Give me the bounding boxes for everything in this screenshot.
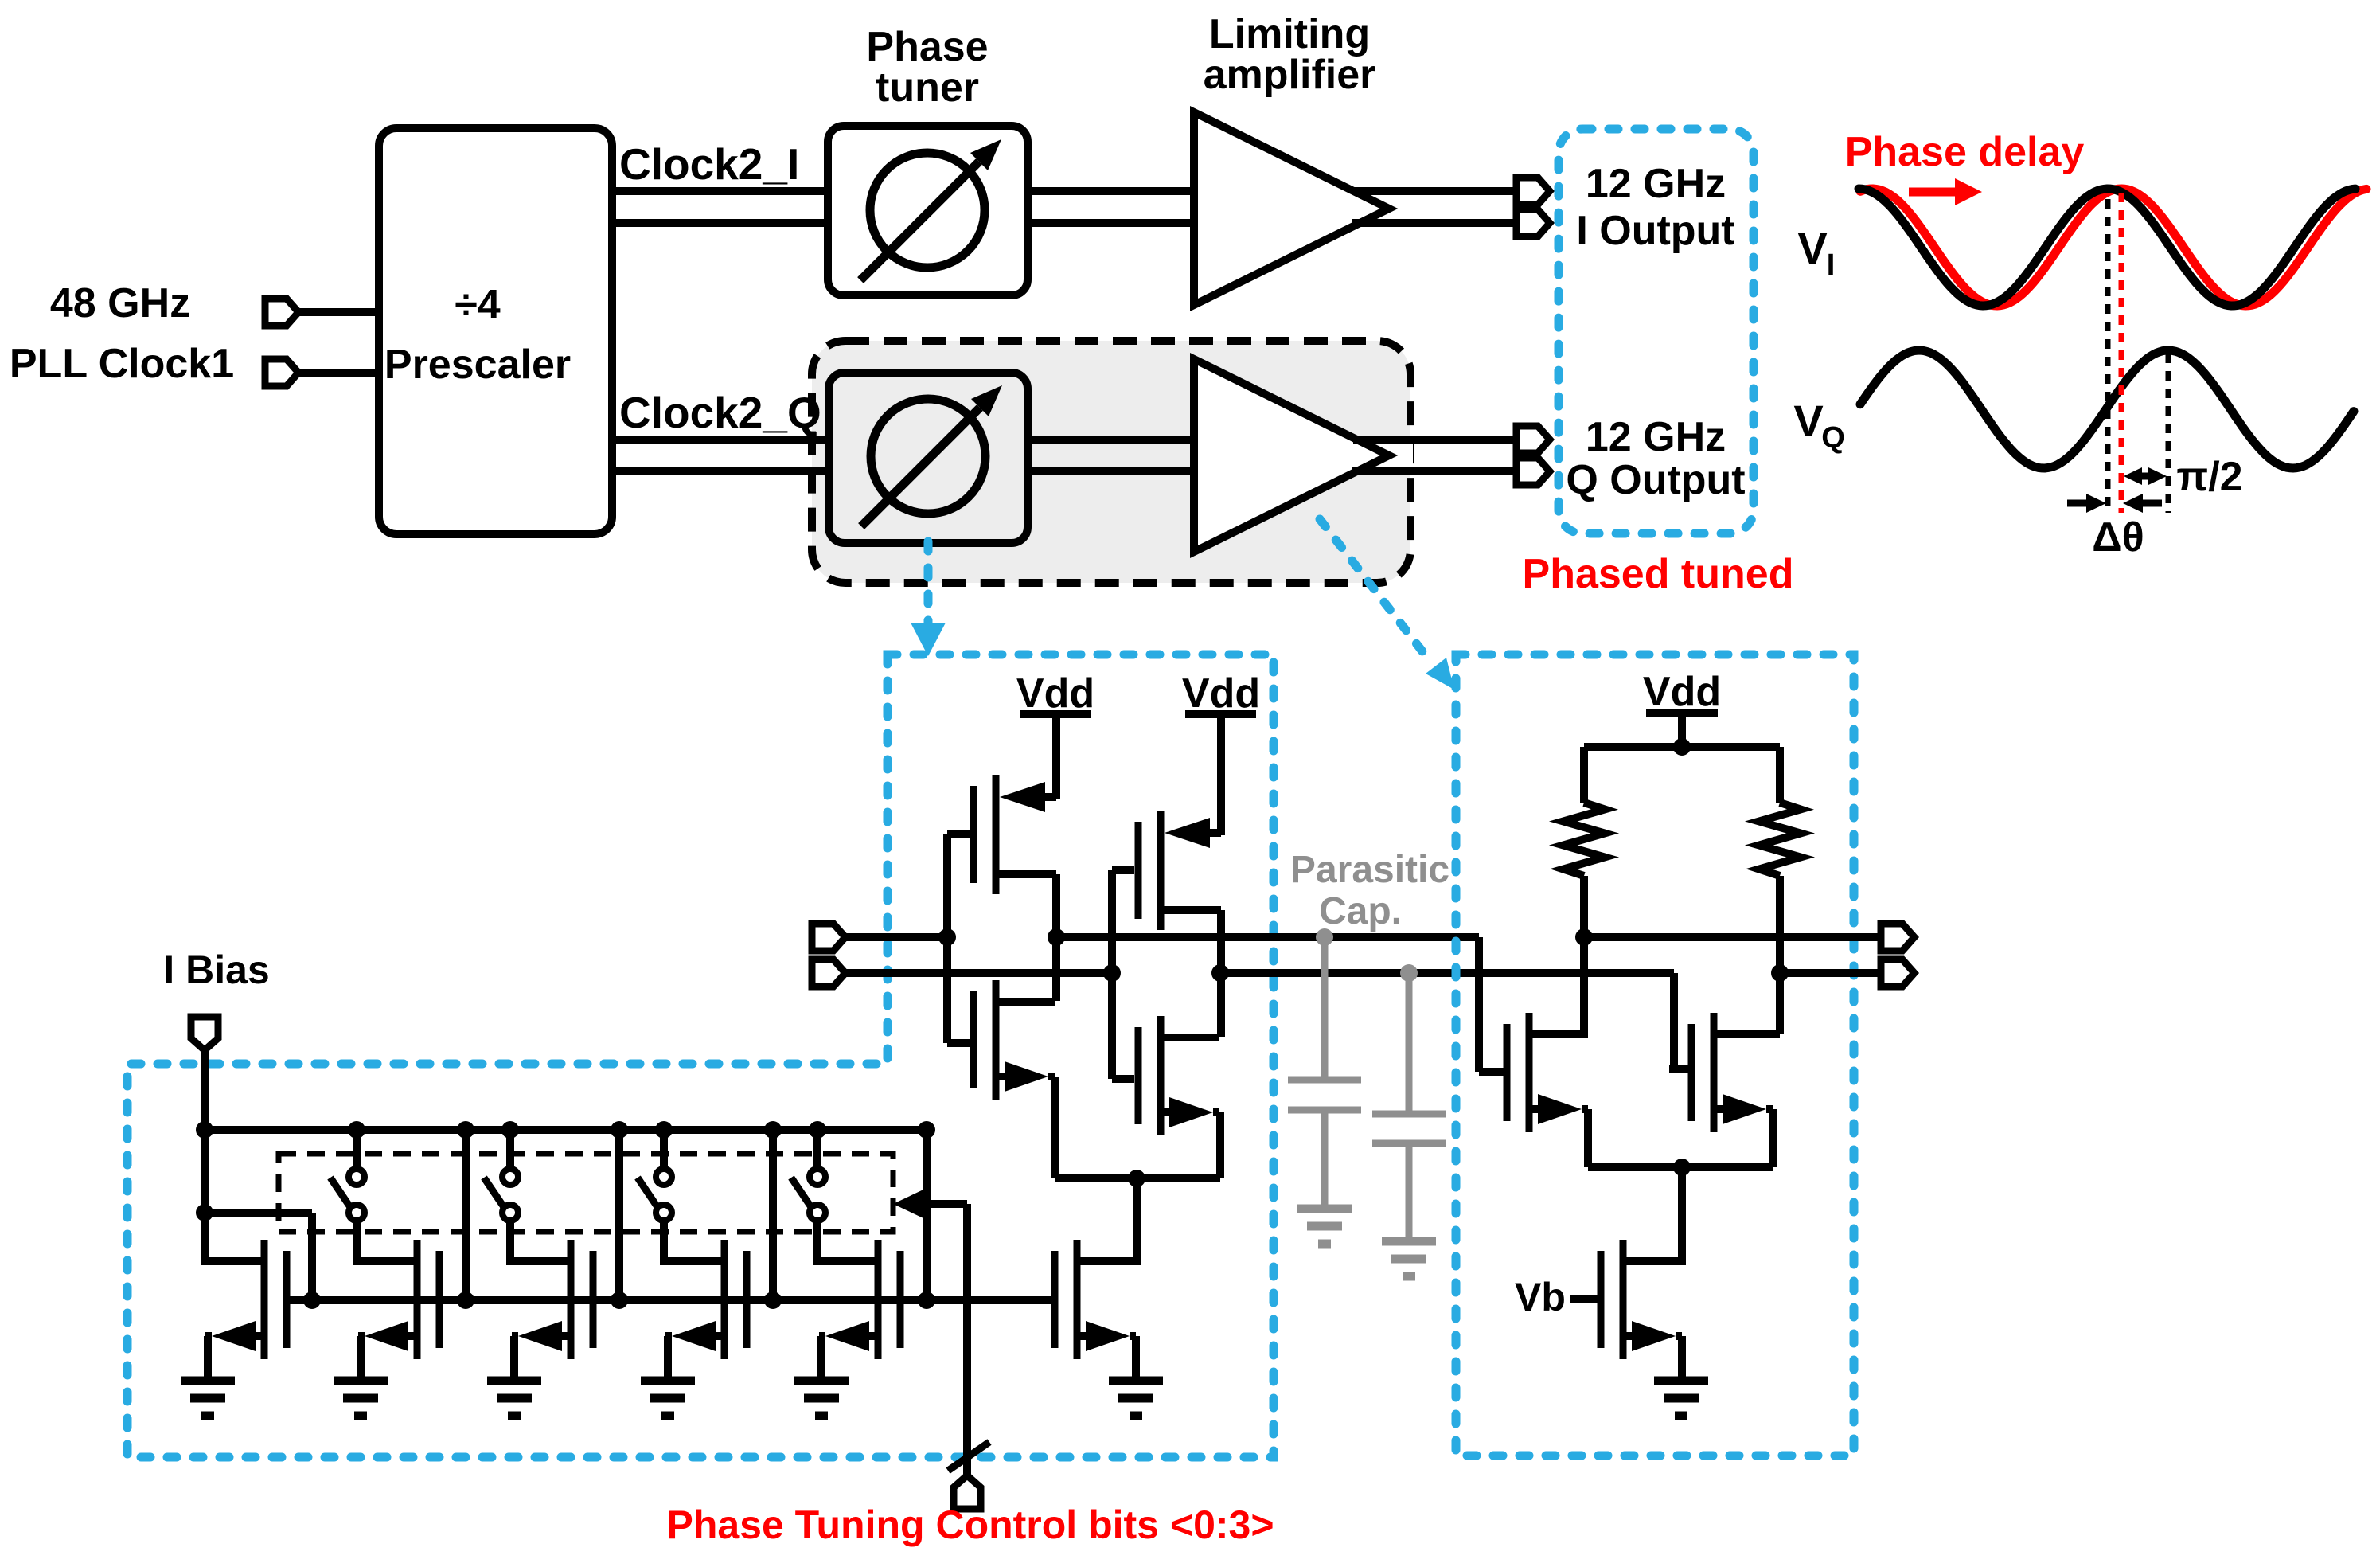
phase tuner PT2 circle [871,399,985,514]
wire rail-to-bus tie 4 [923,1130,931,1300]
wire amp out- line [1780,969,1881,977]
port tuner in- [812,959,845,987]
port P1 input 48GHz upper [265,299,298,326]
svg-text:Vdd: Vdd [1643,669,1721,715]
wire M2 source down [510,1336,518,1381]
transistor MP1 pmos [970,786,977,883]
cyan arrow from A2 to detail box B [1320,519,1425,655]
wire switch S0 to M1 drain [353,1220,361,1265]
blue dashed output box [1559,129,1754,533]
junction dot bus tie 4 [918,1292,935,1309]
wire MT source down [1132,1336,1140,1381]
junction dot INV1 gate tap [938,928,956,946]
wire MN1 source down [1051,1077,1059,1178]
transistor MA2 nmos [1688,1024,1695,1121]
wire A2 out lower [1352,467,1516,475]
switch S3 [810,1169,825,1185]
wire PT2 to amp lower [1028,467,1194,475]
ground M0 [181,1377,235,1385]
wire PT1 to amp upper [1028,187,1194,195]
svg-text:Δθ: Δθ [2092,514,2144,561]
phase tuner PT2 arrow [861,408,980,526]
wire amp out+ line [1584,933,1881,941]
junction dot rail tie 3 [764,1121,782,1139]
junction dot bus tie 3 [764,1292,782,1309]
wire M0 drain stub [201,1257,264,1265]
junction dot IBias-diode [196,1204,213,1221]
gray dashed group box around Q path [812,341,1410,583]
wire control bits vertical [963,1204,971,1475]
junction dot rail switch S0 [348,1121,365,1139]
port P2 input 48GHz lower [265,359,298,386]
svg-text:Vb: Vb [1515,1275,1566,1319]
junction dot Vdd node [1673,738,1691,756]
port Q output lower [1516,458,1550,485]
wire M3 source down [664,1336,672,1381]
pi/2 double arrow [2135,473,2156,480]
ground M1 [334,1377,388,1385]
svg-text:Q: Q [1821,421,1845,455]
wire INV1 gate line [943,834,951,1043]
svg-text:Prescaler: Prescaler [384,342,571,388]
junction dot bus tie 2 [611,1292,628,1309]
parasitic cap C2 [1400,964,1418,982]
bus slash mark [948,1442,989,1471]
wire PT1 to amp lower [1028,219,1194,227]
wire INV1 drain line [1052,874,1060,1001]
junction dot INV2 gate tap [1103,964,1121,982]
wire MP2 source to Vdd [1217,714,1225,835]
wire MA2 gate lead [1669,1065,1691,1073]
wire MB source down [1678,1336,1686,1381]
wire MP1 source to Vdd [1052,714,1060,799]
wire in+ bend to MA1 gate [1475,937,1483,1072]
waveform VQ black [1860,350,2354,468]
junction dot INV1 out [1048,928,1065,946]
wire MA2 drain stub join [1714,1030,1780,1038]
transistor MT tail nmos [1051,1251,1059,1348]
svg-text:Vdd: Vdd [1182,670,1260,717]
junction dot bus tie 1 [457,1292,474,1309]
wire in- bend to MA2 gate [1670,973,1678,1069]
ground MB [1654,1377,1708,1385]
port I Bias [191,1017,218,1050]
svg-text:π/2: π/2 [2176,454,2242,500]
wire MN2 source down [1216,1112,1224,1178]
svg-text:Limiting: Limiting [1209,11,1370,57]
wire rail to switch S0 drop [353,1130,361,1170]
wire tail node horiz [1055,1174,1220,1182]
wire MB drain stub [1626,1257,1682,1265]
waveform VI black [1859,189,2355,306]
junction dot rail tie 1 [457,1121,474,1139]
svg-text:PLL Clock1: PLL Clock1 [10,341,234,387]
junction dot rail switch S2 [655,1121,673,1139]
control bits arrowhead [893,1190,923,1218]
wire M4 source down [817,1336,825,1381]
power Vdd bar 2 [1185,710,1256,718]
svg-text:12 GHz: 12 GHz [1586,414,1726,460]
waveform VI red delayed [1860,189,2366,306]
wire M0 source down [204,1336,212,1381]
ground C1 gray [1297,1205,1352,1213]
junction dot INV2 out [1211,964,1229,982]
wire A1 out lower [1352,219,1516,227]
transistor M4 nmos [897,1251,904,1348]
ground M2 [487,1377,541,1385]
port amp out- [1881,959,1914,987]
svg-text:Clock2_Q: Clock2_Q [619,388,821,437]
port control bits [954,1475,981,1509]
junction dot amp tail [1673,1159,1691,1176]
wire control bits horiz [917,1200,967,1208]
wire A1 out upper [1353,187,1516,195]
svg-text:tuner: tuner [876,64,979,111]
wire input lower to prescaler [298,369,379,377]
transistor M1 nmos [436,1251,443,1348]
cyan arrow from PT2 to detail box A [924,541,933,625]
svg-text:Vdd: Vdd [1016,670,1094,717]
port I output lower [1516,209,1550,236]
svg-text:I Output: I Output [1576,208,1734,254]
wire amp tail horiz [1588,1163,1773,1171]
svg-text:V: V [1793,396,1823,446]
dashed marker VQ peak [2166,354,2171,513]
wire MA1 source down [1584,1109,1592,1167]
svg-text:Q Output: Q Output [1566,457,1745,503]
svg-text:Phase Tuning Control bits <0:3: Phase Tuning Control bits <0:3> [666,1503,1274,1547]
red arrow phase delay [1909,188,1957,197]
switch S0 [349,1169,365,1185]
wire bus Clock2_I upper [612,187,828,195]
phase tuner PT1 arrow [860,162,979,280]
wire bus Clock2_Q upper [612,436,829,444]
svg-text:Parasitic: Parasitic [1290,849,1449,891]
resistor R2 [1776,747,1784,803]
wire MA1 drain stub join [1529,1030,1584,1038]
wire M1 source down [357,1336,365,1381]
transistor M3 nmos [743,1251,751,1348]
power Vdd bar 1 [1020,710,1091,718]
wire switch S2 to M3 drain [660,1220,668,1265]
phase tuner PT1 circle [870,153,985,268]
svg-text:48 GHz: 48 GHz [50,280,190,326]
wire diode connection vert [308,1213,316,1300]
ground MT [1109,1377,1163,1385]
wire rail to switch S2 drop [660,1130,668,1170]
junction dot tail [1128,1170,1145,1187]
junction dot bus-diode [303,1292,321,1309]
wire rail to switch S3 drop [813,1130,821,1170]
svg-text:I Bias: I Bias [163,948,269,992]
wire amp tail down [1678,1167,1686,1265]
phase tuner PT2 box [829,373,1028,543]
svg-text:÷4: ÷4 [455,282,501,328]
wire out+ rail [1056,933,1479,941]
switch S2 [656,1169,672,1185]
wire input upper to prescaler [298,308,379,316]
white notch band A2 [1353,444,1413,467]
port Q output upper [1516,426,1550,453]
wire tail nmos drain stub [1080,1257,1137,1265]
wire top node [1584,743,1780,751]
wire MA2 source down [1769,1109,1777,1167]
transistor MP2 pmos [1135,822,1142,919]
wire in+ to INV1 gates [845,933,947,941]
wire Vb gate lead [1570,1295,1601,1303]
phase tuner PT1 box [828,126,1028,295]
svg-text:Cap.: Cap. [1319,890,1402,932]
junction dot rail switch S1 [501,1121,519,1139]
switch S1 [502,1169,518,1185]
parasitic cap C1 [1316,928,1333,946]
dashed marker VI black peak [2105,199,2111,513]
port I output upper [1516,178,1550,205]
svg-text:Phase delay: Phase delay [1845,129,2085,175]
svg-text:I: I [1827,248,1836,282]
svg-text:12 GHz: 12 GHz [1586,161,1726,207]
svg-text:amplifier: amplifier [1204,52,1376,98]
port amp out+ [1881,924,1914,951]
transistor MN1 nmos [970,991,977,1088]
svg-text:Clock2_I: Clock2_I [619,139,799,189]
junction dot out+ node [1575,928,1593,946]
wire rail-to-bus tie 1 [462,1130,470,1300]
transistor MN2 nmos [1135,1027,1142,1124]
ground M4 [794,1377,849,1385]
wire PT2 to amp upper [1028,436,1194,444]
transistor MA1 nmos [1504,1024,1511,1121]
junction dot rail switch S3 [809,1121,826,1139]
port tuner in+ [812,924,845,951]
wire MA1 gate lead [1479,1068,1507,1076]
ground M3 [641,1377,695,1385]
wire switch S1 to M2 drain [506,1220,514,1265]
wire rail-to-bus tie 3 [769,1130,777,1300]
wire MA2 drain up [1776,973,1784,1034]
junction dot out- node [1771,964,1789,982]
wire diode connection horiz [205,1209,312,1217]
wire A2 out upper [1353,436,1516,444]
blue dashed box B (limiting amp detail) [1456,655,1854,1456]
wire I Bias vertical [201,1050,209,1265]
junction dot rail tie 4 [918,1121,935,1139]
wire bus Clock2_I lower [612,219,828,227]
wire INV2 drain line [1217,910,1225,1037]
wire tail down [1133,1178,1141,1265]
prescaler U1 divide-by-4 box [379,128,612,534]
wire rail-to-bus tie 2 [615,1130,623,1300]
resistor R1 [1580,747,1588,803]
wire rail to switch S1 drop [506,1130,514,1170]
transistor M0 nmos [283,1251,291,1348]
wire in- to INV2 gates [845,969,1112,977]
junction dot rail tie 2 [611,1121,628,1139]
svg-text:Phase: Phase [866,24,988,70]
transistor M2 nmos [590,1251,597,1348]
amplifier A2 triangle [1194,359,1389,552]
dashed switch group box [279,1154,893,1232]
junction dot rail-IBias [196,1121,213,1139]
wire MA1 drain up [1580,876,1588,1034]
ground C2 gray [1382,1237,1436,1246]
wire gate bus [287,1296,1051,1304]
delta-theta arrows [2067,500,2087,507]
dashed marker VI red peak [2119,193,2124,513]
wire out- rail [1220,969,1674,977]
power Vdd bar 3 [1646,709,1718,717]
wire rail I Bias top [205,1126,931,1134]
wire switch S3 to M4 drain [813,1220,821,1265]
transistor MB vb nmos [1598,1251,1605,1348]
svg-text:V: V [1797,223,1827,273]
wire INV2 gate line [1108,870,1116,1079]
blue dashed box A (phase tuner detail) [127,655,1274,1457]
wire bus Clock2_Q lower [612,467,829,475]
amplifier A1 triangle [1194,112,1389,305]
svg-text:Phased tuned: Phased tuned [1523,551,1794,597]
